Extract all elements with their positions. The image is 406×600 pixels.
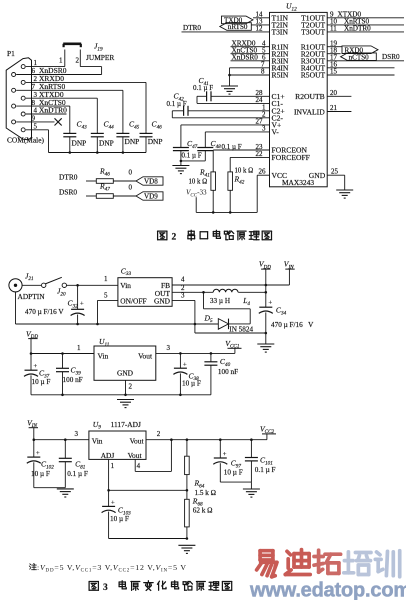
svg-text:GND: GND [154, 296, 171, 305]
svg-text:DSR0: DSR0 [382, 53, 400, 61]
svg-text:R2OUTB: R2OUTB [295, 92, 325, 101]
svg-text:0: 0 [129, 169, 133, 177]
ground rail wire row3 [109, 538, 187, 540]
pin 8 R5IN grounded wire [228, 68, 269, 86]
svg-text:4: 4 [34, 107, 38, 115]
svg-text:T3OUT: T3OUT [301, 28, 325, 37]
U11 Vout pin 3 wire to VCC1 [156, 344, 235, 355]
svg-text:V-: V- [272, 128, 280, 137]
svg-text:DTR0: DTR0 [59, 172, 78, 181]
flag TXD0 to pin 14 [222, 10, 270, 24]
pin 16 R4OUT wire [327, 60, 394, 68]
regulator U buck converter body labeled C33 [118, 266, 172, 306]
power rail VIN stub row3 [27, 418, 38, 441]
svg-text:470 µ F/16 V: 470 µ F/16 V [271, 321, 314, 329]
capacitor C41 0.1uF between C1+ C1- [193, 76, 270, 104]
svg-text:0.1 µ F: 0.1 µ F [193, 84, 213, 92]
svg-text:10 µ F: 10 µ F [32, 378, 51, 386]
svg-text:+: + [80, 301, 84, 308]
svg-text:+: + [269, 300, 273, 307]
capacitor C46 DNP [140, 120, 163, 153]
svg-text:8: 8 [32, 99, 36, 107]
svg-text:GND: GND [117, 368, 134, 377]
svg-text:XnDTR0: XnDTR0 [39, 106, 67, 115]
pin 1 wire to jumper [26, 59, 65, 67]
net XnDTR0 wire pin 11 [327, 24, 404, 32]
svg-text:1: 1 [34, 59, 38, 67]
flag RXD0 [342, 46, 378, 54]
inductor L4 label 33uH [210, 296, 251, 307]
svg-text:ADJ: ADJ [101, 451, 115, 460]
power rail VCC1 label [225, 339, 241, 350]
svg-text:15: 15 [330, 68, 338, 76]
capacitor C43 DNP [63, 120, 87, 153]
FB pin 4 wire to VIN rail [172, 276, 289, 286]
net DTR0 wire to pin 12 [182, 24, 270, 32]
resistor R42 10k [228, 167, 253, 212]
ground for U12 pin 25 [336, 189, 353, 191]
net XnDSR0 wire to pin 6 [231, 53, 270, 61]
svg-text:+: + [36, 450, 40, 457]
pin 18 R2OUT wire to flag nCTS0 [327, 46, 340, 54]
pin 8 wire net XnCTS0 [16, 98, 70, 132]
jumper J19 [59, 42, 114, 75]
ground rail and ground for C102 C81 [34, 487, 66, 489]
resistor R68 62k [185, 490, 213, 540]
svg-text:Vout: Vout [128, 451, 143, 460]
svg-text:470 µ F/16 V: 470 µ F/16 V [25, 308, 64, 316]
pin 25 GND wire and ground [327, 167, 345, 190]
caption Figure 2 serial port schematic [158, 230, 272, 242]
GND pin 3 wire to ground rail [172, 292, 195, 325]
svg-text:Vin: Vin [120, 281, 131, 290]
diode D5 IN5824 freewheel branch [204, 292, 254, 333]
svg-text:100 nF: 100 nF [218, 368, 238, 376]
svg-text:9: 9 [32, 115, 36, 123]
capacitor C45 DNP [116, 120, 139, 153]
svg-text:R5OUT: R5OUT [301, 71, 326, 80]
svg-text:2: 2 [157, 430, 161, 438]
capacitor C48 0.1uF [181, 139, 242, 161]
svg-text:1.5 k Ω: 1.5 k Ω [195, 489, 217, 497]
U9 Vout pin 2 wire to VCC2 [146, 430, 267, 441]
svg-text:VD8: VD8 [144, 178, 158, 186]
switch J20 [22, 277, 66, 297]
svg-text:10 k Ω: 10 k Ω [189, 179, 208, 186]
svg-text:3: 3 [34, 91, 38, 99]
ground rail wire bottom of buck stage [16, 292, 268, 334]
svg-text:0.1 µ F: 0.1 µ F [67, 470, 88, 478]
net XTXD0 wire pin 9 [327, 10, 404, 18]
pin 23 FORCEON wire to resistor R41 [213, 143, 269, 172]
net XnCTS0 wire to pin 5 [231, 46, 270, 54]
wire VIN to U9 Vin pin 3 [34, 430, 89, 441]
svg-text:2: 2 [172, 233, 177, 243]
svg-text:4: 4 [137, 462, 141, 470]
svg-text:1: 1 [59, 57, 63, 65]
pin 4 wire net XnDTR0 [26, 106, 67, 115]
svg-text:VD9: VD9 [144, 193, 158, 201]
pin 20 R2OUTB wire [327, 89, 351, 97]
pin 15 R5OUT wire [327, 68, 394, 76]
svg-text:VCC: VCC [272, 171, 288, 180]
pin 3 wire net XTXD0 [26, 90, 98, 132]
svg-text:1: 1 [77, 344, 81, 352]
power rail VCC2 label [260, 424, 276, 435]
pin 2 wire net XRXD0 [26, 74, 146, 132]
svg-text:5: 5 [104, 292, 108, 300]
svg-text:+: + [183, 361, 187, 368]
svg-text:DNP: DNP [99, 139, 114, 148]
pin 7 R4IN grounded wire [230, 60, 270, 75]
svg-text:DSR0: DSR0 [59, 187, 77, 196]
svg-text:P1: P1 [7, 49, 15, 58]
svg-text:7: 7 [32, 83, 36, 91]
flag nCTS0 [341, 53, 377, 61]
pin 7 wire net XnRTS0 [16, 82, 123, 132]
capacitor C34 470uF/16V [259, 292, 314, 344]
capacitor C44 DNP [91, 120, 114, 153]
ground rail wire for DNP caps [49, 151, 147, 154]
svg-text:+: + [111, 500, 115, 507]
capacitor C38 10uF [173, 353, 201, 394]
svg-text:10 k Ω: 10 k Ω [235, 167, 254, 174]
svg-text:10 µ F: 10 µ F [224, 469, 243, 477]
ground rail and ground for C97 C101 [220, 482, 251, 489]
svg-text:20: 20 [330, 89, 338, 97]
svg-text:10 µ F: 10 µ F [182, 380, 201, 388]
svg-text:0.1 µ F: 0.1 µ F [182, 152, 202, 160]
svg-text:T3IN: T3IN [272, 28, 289, 37]
pin 22 FORCEOFF wire to resistor R42 [230, 150, 269, 172]
svg-text:100 nF: 100 nF [63, 376, 83, 384]
capacitor C102 10uF [27, 440, 54, 488]
net label VCC-33 stub [186, 189, 207, 213]
svg-text:nCTS0: nCTS0 [349, 53, 370, 61]
pin 6 wire net XnDSR0 [16, 66, 101, 75]
U9 Vout pin 4 wire loop to output [135, 438, 173, 471]
svg-text:4: 4 [181, 276, 185, 284]
svg-text:www.edatop.com: www.edatop.com [249, 580, 406, 600]
pin 9 wire with no-connect X [16, 115, 62, 126]
flag VD9 [136, 192, 163, 200]
svg-text:1117-ADJ: 1117-ADJ [111, 420, 141, 429]
capacitor C103 10uF [102, 490, 132, 538]
svg-text:10 µ F: 10 µ F [110, 515, 129, 523]
svg-text:+: + [223, 451, 227, 458]
regulator U9 1117-ADJ body [89, 420, 146, 460]
svg-text:IN 5824: IN 5824 [229, 325, 253, 333]
capacitor C39 100nF [56, 354, 83, 395]
ground for R4IN R5IN [221, 85, 238, 87]
svg-text:12: 12 [256, 24, 264, 32]
svg-text:GND: GND [309, 171, 326, 180]
svg-text:11: 11 [330, 24, 337, 32]
note text supply voltages [29, 563, 187, 573]
svg-text:3: 3 [262, 125, 266, 133]
capacitor C32 470uF/16V [25, 285, 85, 324]
svg-text:COM(Male): COM(Male) [7, 136, 44, 145]
net label DSR0 with resistor R47 0 to VD9 [59, 182, 136, 199]
U9 ADJ pin 1 wire [109, 459, 115, 490]
wire switch to regulator Vin pin 1 [67, 275, 118, 287]
svg-text:26: 26 [259, 167, 267, 175]
pin 21 INVALID wire [327, 104, 351, 112]
pin 17 R3OUT wire net DSR0 [327, 53, 404, 61]
svg-text:1: 1 [111, 462, 115, 470]
svg-text:DNP: DNP [125, 137, 140, 146]
OUT pin 2 wire with inductor L4 [172, 284, 267, 294]
svg-text:XnDSR0: XnDSR0 [232, 53, 259, 61]
svg-text:8: 8 [261, 68, 265, 76]
svg-text:22: 22 [256, 150, 264, 158]
svg-text:Vout: Vout [130, 436, 145, 445]
svg-text:XnDTR0: XnDTR0 [344, 24, 371, 32]
svg-text:Vin: Vin [98, 351, 109, 360]
svg-text:JUMPER: JUMPER [86, 53, 114, 62]
power rail VDD stub [259, 260, 271, 293]
capacitor C81 0.1uF [59, 440, 88, 488]
capacitor C101 0.1uF [245, 440, 276, 482]
svg-text:INVALID: INVALID [294, 108, 325, 117]
resistor R41 10k [189, 168, 216, 213]
svg-text:62 k Ω: 62 k Ω [193, 507, 213, 515]
wire VDD to U11 Vin pin 1 [31, 344, 94, 355]
svg-text:3: 3 [181, 292, 185, 300]
svg-text:DNP: DNP [148, 137, 163, 146]
resistor R64 1.5k [185, 440, 216, 497]
svg-text:+: + [34, 363, 38, 370]
caption Figure 3 power supply schematic [89, 581, 232, 593]
svg-text:3: 3 [75, 430, 79, 438]
ground for C47 C48 [172, 165, 189, 167]
power rail VDD stub row2 [26, 329, 38, 355]
ON/OFF pin 5 wire to ground rail [98, 292, 118, 325]
ground for U11 [117, 399, 134, 401]
connector P1 DB9 COM(Male) [6, 49, 44, 145]
svg-text:6: 6 [32, 67, 36, 75]
pin 3 V- wire to capacitor C48 [205, 125, 269, 148]
capacitor C97 10uF [213, 440, 242, 482]
svg-text:25: 25 [331, 167, 339, 175]
capacitor C47 0.1uF [173, 139, 202, 166]
net XRXD0 wire to pin 4 [231, 39, 270, 47]
regulator U11 body [94, 337, 156, 380]
svg-text:FORCEOFF: FORCEOFF [272, 153, 310, 162]
svg-text:2: 2 [129, 383, 133, 391]
svg-text:DNP: DNP [72, 139, 87, 148]
ground for row3 [178, 544, 195, 546]
op-amp U12 MAX3243 transceiver body [270, 2, 328, 188]
pin 27 V+ wire to capacitor C47 [181, 118, 270, 148]
svg-text:nRTS0: nRTS0 [228, 23, 248, 31]
svg-text:DTR0: DTR0 [183, 24, 201, 32]
svg-text:Vin: Vin [92, 436, 103, 445]
svg-text:0.1 µ F: 0.1 µ F [255, 466, 276, 474]
svg-text:3: 3 [103, 583, 108, 593]
VCC rail wire pin 26 [196, 167, 269, 213]
svg-text:2: 2 [262, 110, 266, 118]
svg-text:Vout: Vout [138, 351, 153, 360]
svg-text:ON/OFF: ON/OFF [120, 296, 146, 305]
svg-text:0: 0 [129, 184, 133, 192]
svg-text:5: 5 [34, 123, 38, 131]
net XnRTS0 wire pin 10 [327, 17, 404, 25]
svg-text:ADPTIN: ADPTIN [18, 292, 46, 301]
svg-text:33 µ H: 33 µ H [210, 297, 230, 305]
connector J21 ADPTIN [9, 271, 45, 301]
pin 5 wire to capacitor ground rail [26, 123, 49, 153]
flag VD8 [136, 177, 163, 185]
svg-text:R5IN: R5IN [272, 71, 289, 80]
svg-text:3: 3 [167, 344, 171, 352]
flag nRTS0 to pin 13 [220, 17, 270, 31]
watermark logo text [249, 550, 406, 600]
pin 19 R1OUT wire to flag RXD0 [327, 39, 342, 47]
wire ADJ node [107, 489, 187, 492]
net label DTR0 with resistor R46 0 to VD8 [59, 167, 136, 184]
svg-text:2: 2 [34, 75, 38, 83]
ground for C34 [257, 343, 274, 345]
capacitor C42 0.1uF between C2+ C2- [167, 92, 270, 119]
capacitor C40 100nF [204, 353, 238, 394]
U11 GND pin 2 wire and ground [124, 380, 132, 396]
svg-text:21: 21 [330, 104, 338, 112]
ground rail wire row2 [31, 394, 211, 397]
svg-text:1: 1 [104, 275, 108, 283]
capacitor C37 10uF [24, 354, 50, 395]
power rail VIN stub [284, 260, 295, 286]
svg-text:2: 2 [76, 57, 80, 65]
